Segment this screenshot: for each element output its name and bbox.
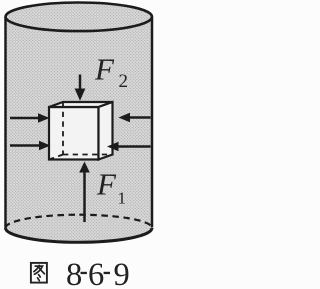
svg-text:2: 2 <box>119 71 129 92</box>
cube silhouette (white) <box>49 102 113 160</box>
cube hidden edge: back-left vertical (dashed) <box>62 102 64 155</box>
cylinder body fill (gray halftone) <box>6 17 153 242</box>
caption hyphen 2 <box>104 272 110 274</box>
arrow F2 (down, onto top face) <box>75 75 86 101</box>
paper background <box>0 0 156 289</box>
cube hidden edge: bottom-left receding (dashed) <box>49 155 63 160</box>
caption hyphen 1 <box>81 272 87 274</box>
cylinder left wall <box>4 17 7 228</box>
cube hidden edge: back-bottom (dashed) <box>63 154 113 156</box>
cylinder right wall <box>151 17 154 228</box>
cylinder bottom front arc <box>6 228 153 242</box>
cylinder top cap fill <box>6 2 153 31</box>
svg-text:6: 6 <box>88 257 104 289</box>
cube right face <box>99 102 113 160</box>
cube top face <box>49 102 113 107</box>
right top arrow (pointing left) <box>119 113 151 123</box>
left bottom arrow (pointing right) <box>10 141 51 151</box>
cube front face <box>49 107 99 160</box>
right bottom arrow (pointing left) <box>107 142 151 152</box>
svg-text:1: 1 <box>118 189 127 208</box>
caption: 图 (drawn glyph) <box>31 263 47 283</box>
left top arrow (pointing right) <box>10 113 50 123</box>
svg-text:8: 8 <box>66 257 82 289</box>
svg-text:F: F <box>96 167 117 202</box>
cylinder bottom back arc (dashed) <box>6 215 153 228</box>
svg-text:F: F <box>94 52 115 87</box>
cylinder top rim (ellipse outline) <box>6 2 153 31</box>
svg-text:9: 9 <box>114 257 130 289</box>
arrow F1 (up, onto bottom face) <box>79 162 90 223</box>
